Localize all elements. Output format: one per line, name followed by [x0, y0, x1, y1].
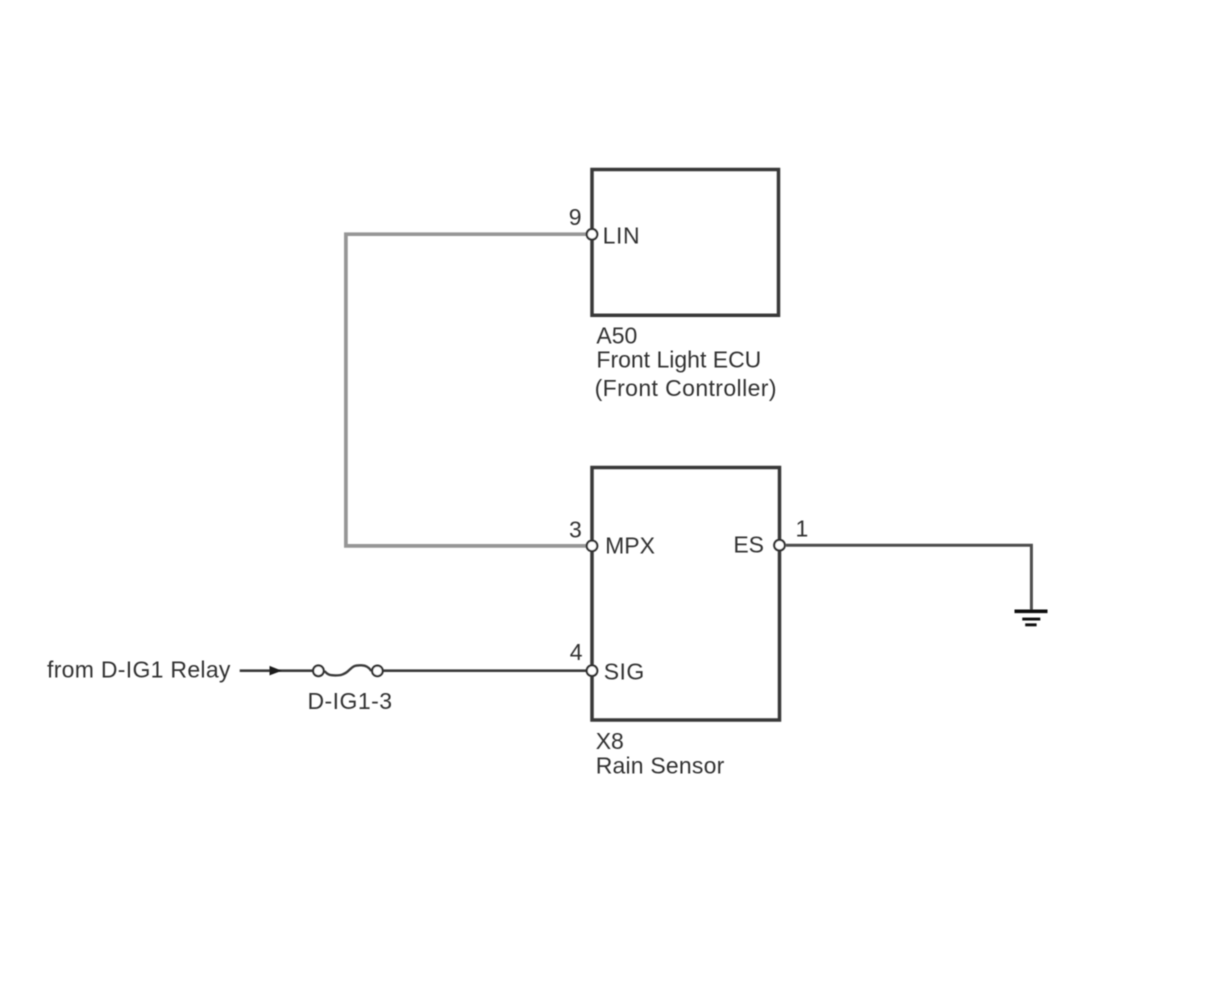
wire LIN to MPX: [346, 234, 590, 546]
pin 1 ES terminal: [774, 540, 785, 551]
pin 3 MPX terminal: [587, 541, 598, 552]
arrowhead: [270, 666, 282, 676]
svg-text:Rain Sensor: Rain Sensor: [596, 753, 725, 779]
svg-text:SIG: SIG: [604, 659, 645, 685]
svg-text:3: 3: [569, 517, 582, 543]
wire from D-IG1 relay to SIG: [240, 669, 313, 672]
wire ES to ground: [786, 545, 1031, 609]
svg-text:Front Light ECU: Front Light ECU: [596, 346, 761, 372]
pin 4 SIG terminal: [587, 665, 598, 676]
pin 9 LIN terminal: [587, 229, 598, 240]
svg-text:4: 4: [570, 639, 583, 665]
ground: [1015, 610, 1048, 627]
svg-text:A50: A50: [596, 322, 637, 348]
fuse terminal right: [372, 666, 383, 677]
fuse terminal left: [313, 666, 324, 677]
svg-text:X8: X8: [596, 728, 624, 754]
fuse D-IG1-3 curve: [325, 665, 372, 675]
svg-text:1: 1: [796, 515, 809, 541]
svg-text:MPX: MPX: [605, 533, 655, 559]
svg-text:LIN: LIN: [603, 223, 641, 249]
svg-text:(Front Controller): (Front Controller): [595, 375, 777, 401]
rain sensor box X8: [592, 468, 780, 721]
ECU box A50: [592, 170, 779, 316]
svg-text:D-IG1-3: D-IG1-3: [308, 688, 393, 714]
svg-text:9: 9: [569, 204, 582, 230]
svg-text:from D-IG1 Relay: from D-IG1 Relay: [47, 657, 231, 683]
wire fuse to SIG: [383, 669, 590, 672]
svg-text:ES: ES: [733, 532, 764, 558]
